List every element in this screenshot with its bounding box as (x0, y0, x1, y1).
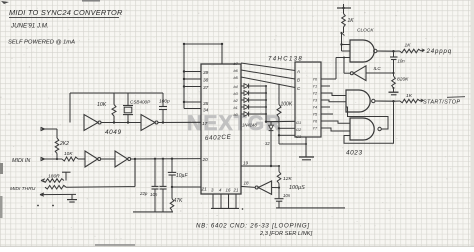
svg-text:24pppq: 24pppq (426, 48, 452, 55)
pin label 21 left (201, 187, 208, 193)
capacitor 10uF (168, 158, 176, 188)
pin label 35 (203, 101, 209, 107)
pin label A (296, 69, 300, 74)
label MIDI THRU (10, 186, 36, 192)
diodes D1-D5 1N4148 (241, 84, 267, 117)
label 4049 (105, 129, 122, 136)
subtitle SELF POWERED @ 1mA (8, 40, 75, 46)
svg-text:100p: 100p (159, 99, 170, 105)
svg-text:21: 21 (201, 187, 208, 193)
label 2K2 (59, 141, 69, 147)
wire Y5 stub (321, 113, 333, 115)
svg-text:NB: 6402 CND: 26-33 [LOOPING]: NB: 6402 CND: 26-33 [LOOPING] (196, 223, 310, 230)
wire 6402 left pin rail (183, 44, 201, 109)
resistor 100K (277, 84, 281, 144)
capacitor 10n (serial) (160, 158, 167, 212)
IC U2 6402 UART body (201, 64, 241, 194)
svg-text:JUNE'91 J.M.: JUNE'91 J.M. (10, 23, 49, 30)
label 100K (281, 102, 293, 108)
wire osc left vertical (69, 93, 71, 123)
wire latch fb1 (346, 107, 388, 129)
wire data to 138 B (241, 70, 295, 79)
label 1N4148 (242, 123, 257, 128)
wire data to 138 C (241, 77, 295, 88)
svg-text:10K: 10K (64, 151, 73, 157)
label 10K (midi) (64, 151, 73, 157)
ground rail (caps) (133, 211, 173, 213)
svg-text:G3: G3 (296, 134, 302, 139)
wire Y2 jog (321, 93, 346, 96)
resistor 10K (osc feedback) (112, 93, 116, 123)
label 12K (283, 176, 292, 182)
svg-text:22p: 22p (139, 191, 148, 196)
svg-text:CLOCK: CLOCK (357, 28, 374, 34)
inverter U1a (4049 osc) (84, 115, 101, 131)
svg-text:19: 19 (243, 161, 249, 166)
svg-text:18: 18 (244, 181, 250, 186)
label 4023 (346, 150, 363, 157)
node MIDI IN arrow (40, 157, 62, 161)
wire 6402 supply rail top (183, 43, 223, 64)
svg-text:180R: 180R (48, 174, 60, 180)
pin label 37 (203, 85, 209, 91)
svg-text:b4: b4 (234, 85, 238, 89)
svg-text:4023: 4023 (346, 150, 363, 157)
label 100uS (289, 185, 305, 191)
label output 24pppq (426, 48, 452, 55)
capacitor 10n (clock) (390, 51, 398, 73)
label 100p (159, 99, 170, 105)
svg-text:2,3 [FOR SER LINK]: 2,3 [FOR SER LINK] (259, 231, 313, 237)
wire data to 138 A (241, 63, 295, 71)
inverter U1e (mono) (350, 66, 366, 81)
wire osc feedback top rail (70, 92, 163, 94)
wire 6402 pin21 (172, 186, 201, 188)
wire latch fb2 (344, 101, 394, 143)
svg-text:820K: 820K (397, 77, 409, 83)
node CLOCK (340, 32, 344, 36)
svg-text:16: 16 (226, 188, 231, 193)
ground (midi thru) (67, 200, 77, 202)
label 6402CE (205, 134, 232, 142)
diode D6 (to pin19 node) (269, 122, 274, 168)
wire mono out (343, 57, 350, 74)
ground rail bottom (276, 207, 345, 209)
svg-text:47K: 47K (174, 198, 184, 204)
svg-text:G1: G1 (296, 120, 301, 125)
label 74HC138 (268, 57, 303, 63)
svg-text:1K: 1K (348, 18, 355, 24)
inverter U1b (4049 osc) (141, 115, 158, 131)
svg-text:32: 32 (265, 141, 270, 146)
wire between inverters (101, 158, 115, 160)
pin label 17 (202, 121, 208, 127)
pin label 18 (244, 181, 250, 186)
wire osc node (101, 121, 141, 123)
subtitle JUNE'91 J.M. (10, 23, 49, 30)
svg-text:17: 17 (202, 121, 208, 127)
label 10n (serial) (150, 192, 158, 197)
capacitor 22p (152, 158, 159, 212)
watermark NEXTGR (187, 112, 282, 135)
label 820K (397, 77, 409, 83)
svg-text:10n: 10n (150, 192, 158, 197)
pin labels bottom 3 4 16 21 (211, 188, 239, 193)
nand gate U4b 4023 (346, 90, 375, 112)
ground (74HC138) (299, 137, 314, 160)
node marks (37, 205, 54, 207)
pin labels Y0-Y7 (313, 78, 319, 131)
svg-text:21: 21 (233, 188, 239, 193)
svg-text:12K: 12K (283, 176, 292, 182)
svg-text:Y4: Y4 (313, 106, 318, 110)
svg-text:START/STOP: START/STOP (423, 100, 460, 106)
svg-text:MIDI TO SYNC24 CONVERTOR: MIDI TO SYNC24 CONVERTOR (9, 8, 123, 17)
label 1K (start) (406, 93, 413, 99)
capacitor 10n (timer) (275, 188, 284, 208)
nand gate U4c 4023 (350, 118, 381, 140)
6402 bottom stubs (213, 194, 236, 208)
wire clock rail (340, 33, 342, 51)
IC U3 74HC138 body (295, 62, 321, 137)
ground bar (6402 bottom) (211, 208, 243, 210)
label 47K (174, 198, 184, 204)
wire 100K to G2 (278, 127, 295, 129)
svg-text:2K2: 2K2 (59, 141, 69, 147)
6402 right pin labels (234, 62, 239, 117)
wire thru vertical (134, 159, 136, 187)
pin label G1 (296, 120, 301, 125)
svg-text:4049: 4049 (105, 129, 122, 136)
svg-text:100µS: 100µS (289, 185, 305, 191)
pin label 38 (203, 78, 209, 84)
nand1 input stubs (336, 45, 350, 58)
pin label 19 (243, 161, 249, 166)
svg-text:6402CE: 6402CE (205, 134, 232, 142)
ceramic resonator CSB400P (123, 93, 133, 123)
svg-text:b1: b1 (234, 106, 238, 110)
svg-text:39: 39 (203, 70, 209, 76)
svg-text:20: 20 (202, 157, 209, 163)
resistor 1K (pullup) (342, 8, 346, 33)
label 10uF (176, 173, 188, 179)
svg-text:1K: 1K (406, 93, 413, 99)
wire inverter out to 6402 pin20 (131, 158, 201, 160)
svg-text:MIDI THRU: MIDI THRU (10, 186, 36, 192)
inverter U1f (timer) (255, 181, 271, 194)
pin label 20 (202, 157, 209, 163)
pin label B (297, 78, 300, 83)
wire Y6 jog (321, 121, 350, 123)
label START/STOP (423, 97, 465, 106)
label 22p (139, 191, 148, 196)
wire Y1 stub (321, 85, 330, 87)
resistor 12K (277, 166, 281, 188)
pin label 34 (203, 108, 209, 114)
resistor 820K (392, 73, 396, 88)
wire 6402 pin19 (241, 165, 280, 167)
ground (820K) (389, 87, 399, 95)
resistor 180R (41, 172, 71, 182)
svg-text:CSB400P: CSB400P (130, 100, 151, 105)
wire thru ground stub (40, 193, 76, 199)
label 10n (clock) (398, 59, 406, 64)
label 10K (osc) (97, 102, 107, 108)
wire 6402 pin18 (241, 186, 255, 187)
svg-text:1K: 1K (405, 43, 412, 49)
wire rail to G1 (265, 121, 295, 123)
wire Y7 jog (321, 128, 350, 131)
wire mono input (366, 72, 394, 74)
wire osc out to 6402 pin17 (158, 121, 201, 123)
wire nand1 out (377, 50, 395, 52)
svg-text:Y1: Y1 (313, 85, 318, 89)
wire diode rail (265, 86, 267, 122)
wire inv to node (272, 187, 281, 189)
label ILC (374, 66, 382, 71)
svg-text:10µF: 10µF (176, 173, 188, 179)
pin label G3 (296, 134, 302, 139)
capacitor 100p (osc) (159, 93, 167, 123)
node mono (392, 72, 394, 74)
svg-text:1N4148: 1N4148 (242, 123, 257, 128)
svg-text:A: A (296, 69, 300, 74)
wire Y0 to gate1 (321, 58, 336, 80)
wire Y4 stub (321, 106, 330, 108)
label resonator CSB400P (130, 100, 151, 105)
wire 100K to G3 (278, 134, 295, 136)
svg-text:38: 38 (203, 78, 209, 84)
nand gate U4a 4023 (350, 40, 377, 62)
svg-text:10K: 10K (97, 102, 107, 108)
svg-text:10n: 10n (283, 193, 291, 198)
label 10n (timer) (283, 193, 291, 198)
label 1K (pullup) (348, 18, 355, 24)
svg-text:MIDI IN: MIDI IN (12, 158, 30, 164)
svg-text:34: 34 (203, 108, 209, 114)
label 1K (clock out) (405, 43, 412, 49)
wire Y3 jog (321, 100, 346, 102)
note line1 (196, 223, 310, 230)
label MIDI IN (12, 158, 30, 164)
wire nand2 out (375, 100, 395, 102)
inverter U1c (midi in) (85, 151, 101, 167)
pin label C (297, 86, 301, 91)
pin label 39 (203, 70, 209, 76)
label 180R (48, 174, 60, 180)
svg-text:35: 35 (203, 101, 209, 107)
resistor 10K (midi in) (62, 157, 78, 161)
svg-text:74HC138: 74HC138 (268, 57, 303, 63)
label 32 scribble (265, 141, 270, 146)
title text MIDI TO SYNC24 CONVERTOR (9, 8, 123, 18)
label CLOCK (357, 28, 374, 34)
inverter U1d (midi in) (115, 151, 131, 167)
resistor 220R (midi thru) (45, 185, 135, 189)
wire to 138 ground (279, 143, 307, 145)
supply stub (1K pullup) (337, 4, 351, 9)
resistor 1K (start) (394, 99, 424, 103)
svg-text:G2: G2 (296, 127, 302, 132)
wire to inverter (78, 158, 85, 160)
resistor 1K (clock out) (394, 49, 425, 53)
note line2 (259, 231, 313, 237)
svg-text:ILC: ILC (374, 66, 382, 71)
svg-text:100K: 100K (281, 102, 293, 108)
pin label G2 (296, 127, 302, 132)
resistor 47K (170, 186, 174, 212)
svg-text:10n: 10n (398, 59, 406, 64)
svg-text:37: 37 (203, 85, 209, 91)
svg-text:B: B (297, 78, 300, 83)
resistor 2K2 (pullup) (40, 127, 59, 160)
svg-text:SELF POWERED @ 1mA: SELF POWERED @ 1mA (8, 40, 75, 46)
